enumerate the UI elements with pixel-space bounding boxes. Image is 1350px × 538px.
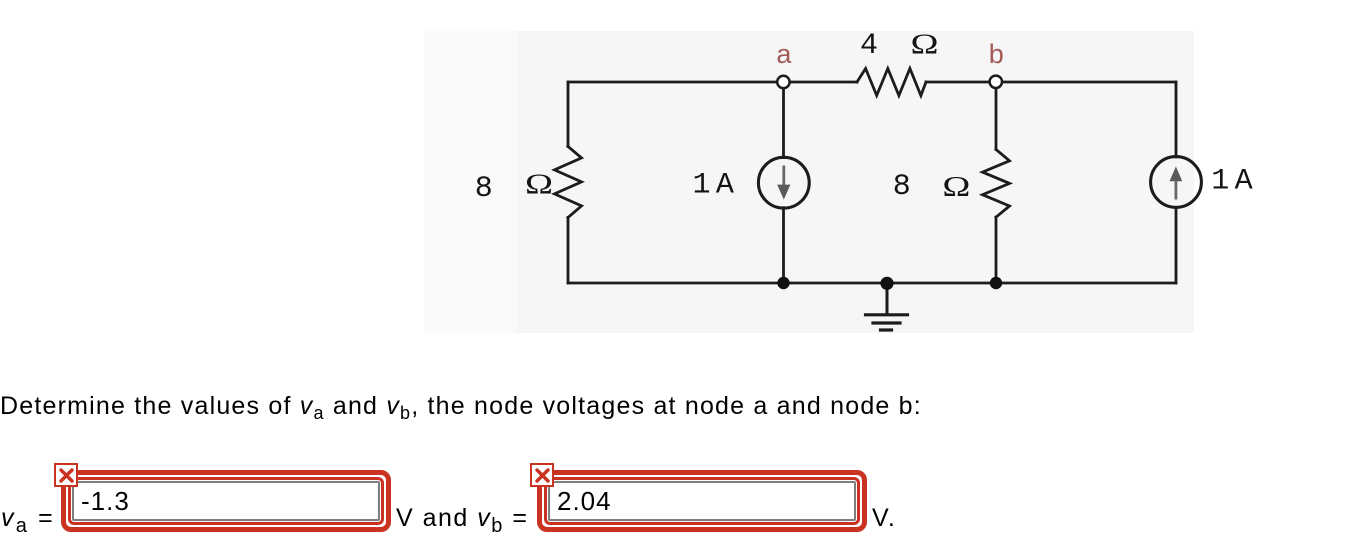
ground bar 1: [866, 313, 908, 316]
svg-text:Ω: Ω: [942, 171, 970, 203]
svg-text:8: 8: [475, 172, 493, 206]
node a open circle: [777, 76, 789, 88]
wire top left: left corner to node a: [568, 81, 857, 84]
resistor R2 8ohm zigzag: [983, 150, 1010, 218]
arrow current source I1 (down): [777, 166, 790, 200]
wire current source I1 to bottom: [782, 208, 785, 283]
wire right vertical top: [1175, 82, 1178, 157]
current source I2 circle: [1151, 157, 1202, 208]
answer box 1: [61, 470, 391, 532]
wire resistor R2 to bottom: [995, 217, 998, 283]
ground stem: [886, 283, 889, 315]
svg-text:a: a: [776, 39, 792, 69]
resistor R3 4ohm zigzag: [857, 69, 926, 96]
svg-text:4: 4: [860, 29, 878, 63]
text: V and vb =: [396, 504, 528, 532]
junction dot ground: [880, 277, 893, 290]
wire top right: resistor to right corner: [926, 81, 1176, 84]
wire node b down to resistor: [995, 82, 998, 150]
svg-text:8: 8: [893, 170, 911, 204]
current source I1 circle: [758, 157, 809, 208]
wire left vertical bottom: [567, 218, 570, 284]
wire node a down to current source: [782, 82, 785, 158]
junction dot right: [990, 277, 1002, 289]
answer box 2: [537, 470, 867, 532]
svg-text:Ω: Ω: [910, 28, 938, 60]
svg-text:1A: 1A: [693, 169, 740, 203]
resistor R1 8ohm left zigzag: [555, 147, 582, 218]
answer line: va =: [1, 504, 55, 532]
text: V.: [872, 504, 896, 532]
wire left vertical top: [567, 82, 570, 147]
svg-text:b: b: [989, 39, 1004, 69]
node b open circle: [990, 76, 1002, 88]
svg-text:1A: 1A: [1211, 165, 1258, 199]
question line: [0, 392, 922, 421]
ground bar 3: [881, 328, 892, 331]
ground bar 2: [873, 321, 900, 324]
svg-text:Ω: Ω: [525, 169, 553, 201]
wire right vertical bottom: [1175, 207, 1178, 283]
arrow current source I2 (up): [1170, 167, 1183, 200]
circuit schematic image area: [0, 0, 1350, 370]
junction dot left: [777, 277, 789, 289]
wire bottom: [568, 282, 1176, 285]
